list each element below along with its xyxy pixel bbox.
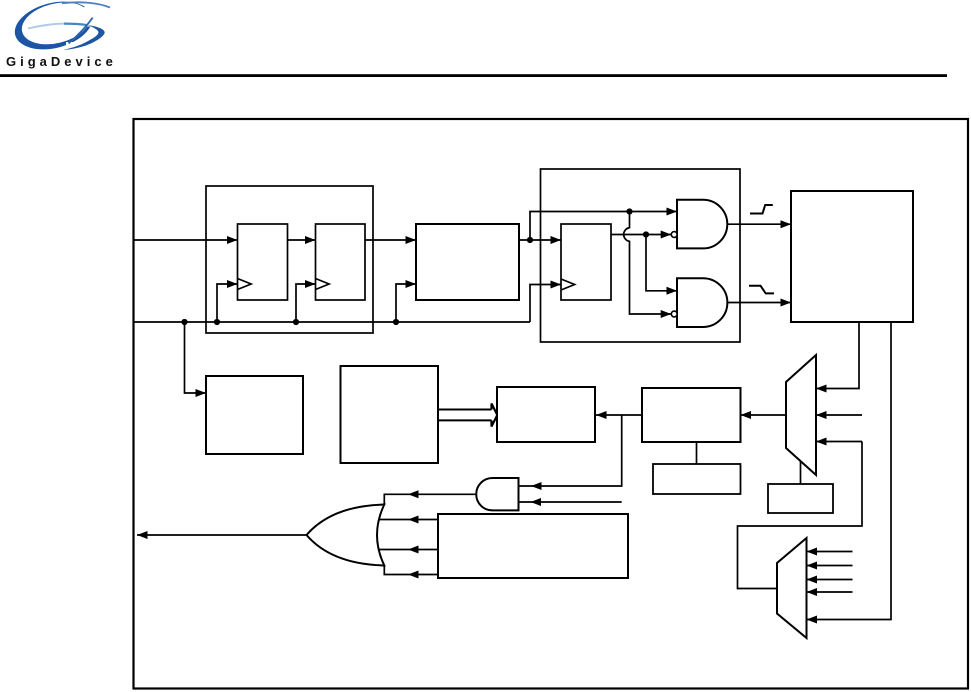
svg-text:GigaDevice: GigaDevice bbox=[6, 54, 117, 69]
